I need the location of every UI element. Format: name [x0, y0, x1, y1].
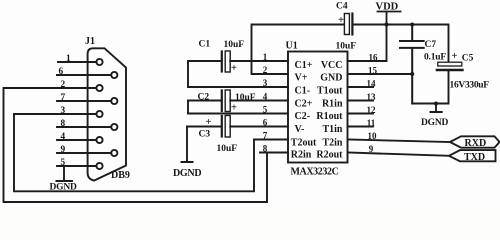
wire V- net (IC pin6) — [187, 126, 288, 128]
svg-text:5: 5 — [263, 104, 268, 114]
svg-text:8: 8 — [61, 119, 66, 129]
wire C2+ net (IC pin4) — [188, 100, 288, 102]
wire C2- net (IC pin5) — [188, 113, 288, 115]
svg-text:1: 1 — [263, 52, 268, 62]
capacitor C4 — [344, 14, 349, 35]
power VDD symbol — [378, 12, 401, 25]
capacitor C2 — [221, 91, 223, 112]
svg-text:3: 3 — [263, 78, 268, 88]
svg-text:T1in: T1in — [322, 124, 342, 135]
svg-text:DGND: DGND — [421, 118, 449, 128]
svg-text:T2out: T2out — [291, 138, 317, 149]
capacitor C3 — [221, 116, 223, 137]
wire DB9 pin3 long wire to T2out loop — [14, 114, 254, 191]
svg-text:T2in: T2in — [322, 138, 342, 149]
svg-text:+: + — [452, 51, 458, 62]
svg-text:C2-: C2- — [295, 111, 311, 122]
flag TXD — [449, 150, 496, 161]
DB9 pin 6 circle — [111, 72, 117, 78]
IC right pin labels — [316, 60, 343, 161]
IC left pin numbers — [263, 52, 268, 154]
svg-text:DGND: DGND — [173, 168, 201, 179]
svg-text:R1in: R1in — [322, 98, 343, 109]
IC left pin labels — [291, 60, 317, 161]
svg-text:3: 3 — [61, 106, 66, 116]
wire DB9 pin9 stub — [57, 152, 111, 154]
svg-text:T1out: T1out — [317, 85, 343, 96]
DB9 pin 1 circle — [96, 59, 102, 65]
capacitor C1 — [221, 52, 223, 72]
svg-text:C7: C7 — [425, 40, 437, 50]
capacitor C5 — [448, 25, 450, 63]
connector J1 DB9 shell — [88, 48, 126, 180]
DB9 pin 7 circle — [111, 98, 117, 104]
svg-text:C5: C5 — [462, 54, 474, 64]
svg-text:C2+: C2+ — [295, 98, 313, 109]
svg-text:+: + — [231, 63, 237, 74]
DB9 pin 8 circle — [111, 124, 117, 130]
DB9 pin 5 circle — [96, 163, 102, 169]
svg-text:1: 1 — [66, 54, 71, 64]
ground DGND (right) — [431, 111, 442, 113]
wire T2in pin10 to RXD — [348, 140, 451, 143]
wire VCC net top — [352, 24, 448, 26]
wire DB9 pin2 long wire to R2in loop — [4, 88, 268, 202]
svg-text:R2in: R2in — [291, 150, 312, 161]
svg-text:16V330uF: 16V330uF — [450, 81, 490, 91]
IC U1 MAX3232C box — [288, 52, 348, 163]
svg-text:4: 4 — [61, 132, 66, 142]
node GND pin15 junction — [410, 72, 414, 76]
svg-text:C4: C4 — [336, 2, 348, 12]
svg-text:10uF: 10uF — [336, 42, 357, 52]
wire C1+ net (IC pin1) — [188, 60, 288, 62]
svg-text:V-: V- — [295, 124, 305, 135]
svg-text:R1out: R1out — [316, 111, 343, 122]
svg-text:10uF: 10uF — [224, 40, 245, 50]
wire C3 to ground — [186, 127, 188, 163]
ground DGND (DB9) — [57, 180, 73, 182]
wire DB9 pin5 stub — [57, 165, 96, 167]
svg-text:MAX3232C: MAX3232C — [291, 167, 339, 178]
svg-text:9: 9 — [61, 145, 66, 155]
DB9 pin 3 circle — [96, 111, 102, 117]
wire DB9 pin5 to ground — [63, 166, 65, 181]
DB9 pin 2 circle — [96, 85, 102, 91]
svg-text:R2out: R2out — [316, 150, 343, 161]
wire C2 bracket C2+ to C2- — [187, 101, 189, 114]
capacitor C7 — [400, 25, 424, 104]
wire DB9 pin7 stub — [57, 100, 111, 102]
svg-text:10uF: 10uF — [217, 144, 238, 154]
svg-text:C1-: C1- — [295, 85, 311, 96]
wire DB9 pin8 stub — [57, 126, 111, 128]
svg-text:VCC: VCC — [321, 60, 343, 71]
svg-text:6: 6 — [59, 67, 64, 77]
node C7 top junction — [410, 23, 414, 27]
svg-text:+: + — [231, 102, 237, 113]
svg-text:6: 6 — [263, 117, 268, 127]
svg-text:V+: V+ — [295, 73, 308, 84]
node DGND junction — [434, 102, 438, 106]
ground DGND (C3) — [182, 161, 193, 163]
wire VCC pin16 riser — [348, 25, 387, 62]
svg-text:C1: C1 — [199, 40, 211, 50]
wire DB9 pin1 stub — [58, 61, 96, 63]
svg-text:VDD: VDD — [376, 2, 399, 13]
wire C1 bracket C1+ to C1- — [187, 61, 189, 87]
svg-text:+: + — [338, 15, 344, 26]
wire GND pin15 — [348, 73, 413, 75]
DB9 pin 9 circle — [111, 150, 117, 156]
svg-text:GND: GND — [320, 73, 342, 84]
wire IC pin8 R2in stub — [260, 152, 288, 154]
svg-text:U1: U1 — [286, 41, 298, 52]
wire IC pin7 T2out stub — [254, 139, 288, 141]
svg-text:J1: J1 — [85, 36, 95, 47]
svg-text:TXD: TXD — [464, 152, 485, 163]
svg-text:C3: C3 — [199, 130, 211, 140]
wire T1in pin11 stub — [348, 126, 374, 128]
svg-text:C1+: C1+ — [295, 60, 313, 71]
wire DB9 pin6 stub — [57, 74, 111, 76]
svg-text:2: 2 — [61, 80, 66, 90]
svg-text:10uF: 10uF — [235, 93, 256, 103]
DB9 pin 4 circle — [96, 137, 102, 143]
svg-text:DB9: DB9 — [111, 170, 130, 181]
wire T1out pin14 stub — [348, 86, 374, 88]
wire R1in pin13 stub — [348, 100, 374, 102]
node VDD junction — [385, 23, 389, 27]
wire C7/C5 bottom join — [412, 103, 448, 105]
flag RXD — [450, 136, 500, 147]
svg-text:7: 7 — [61, 93, 66, 103]
wire C1- net (IC pin3) — [188, 86, 288, 88]
svg-text:4: 4 — [263, 91, 268, 101]
svg-text:DGND: DGND — [50, 183, 78, 193]
IC right pin numbers — [367, 53, 379, 155]
wire DB9 pin4 stub — [57, 139, 96, 141]
wire IC pin2 V+ riser to C4 — [252, 25, 345, 75]
wire to right DGND — [435, 104, 437, 113]
wire R1out pin12 stub — [348, 113, 374, 115]
svg-text:RXD: RXD — [465, 138, 487, 149]
wire R2out pin9 to TXD — [348, 153, 450, 156]
svg-text:0.1uF: 0.1uF — [424, 53, 446, 63]
